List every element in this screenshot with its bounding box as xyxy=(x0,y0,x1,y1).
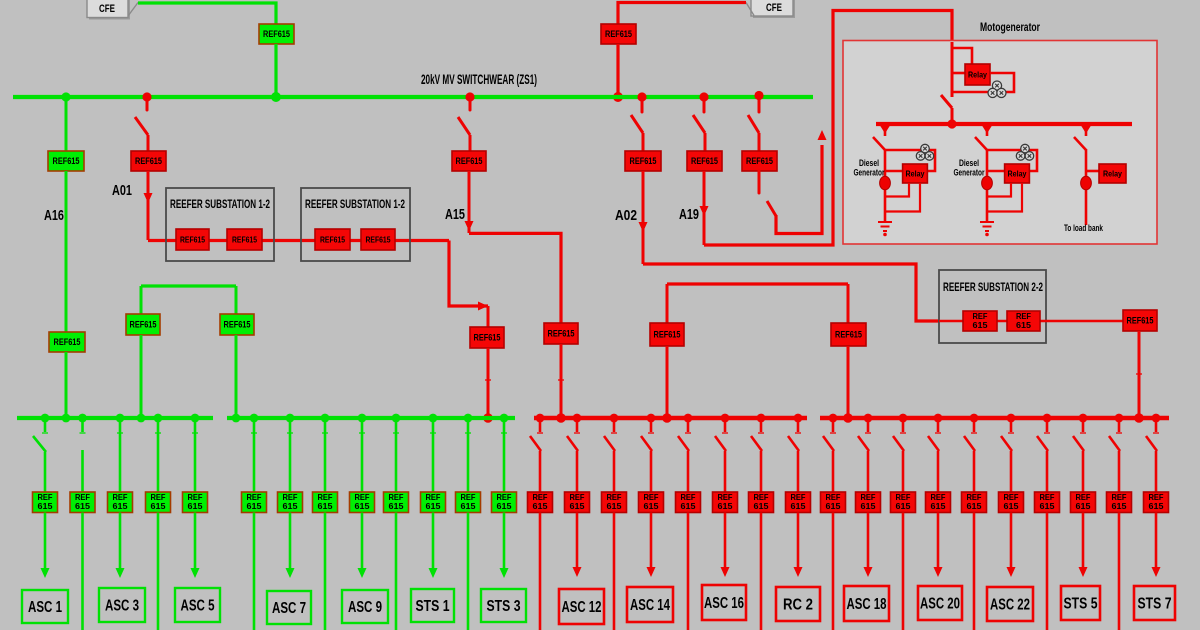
svg-text:615: 615 xyxy=(973,321,989,330)
wire A15 down xyxy=(468,171,471,233)
svg-text:REF615: REF615 xyxy=(474,333,501,343)
wire branch main vertical 3 load bank xyxy=(1085,149,1088,225)
relay REF615 feeder A01 xyxy=(131,151,166,171)
wire feeder stub xyxy=(797,418,800,432)
svg-text:STS 5: STS 5 xyxy=(1064,596,1098,613)
breaker feeder (open blade) xyxy=(823,436,834,451)
relay REF615 A15 drop to red bus xyxy=(544,323,578,344)
breaker feeder (open blade) xyxy=(788,436,799,451)
load box ASC 22 xyxy=(987,587,1033,621)
svg-text:REF: REF xyxy=(1004,493,1019,502)
tick feeder xyxy=(430,432,436,434)
wire A19 to motogenerator xyxy=(704,11,952,246)
svg-text:REF615: REF615 xyxy=(263,29,290,39)
node feeder tap green ASC 7 xyxy=(286,414,295,423)
wire green sub-ring left to bus xyxy=(140,335,143,416)
tick feeder xyxy=(685,432,691,434)
wire feeder to relay xyxy=(1155,451,1158,493)
wire feeder to ASC 18 xyxy=(867,513,870,568)
svg-text:REF: REF xyxy=(188,493,203,502)
wire red sub-ring left drop xyxy=(666,284,669,324)
relay REF615 feeder spare xyxy=(602,492,627,513)
wire feeder stub xyxy=(539,418,542,432)
breaker feeder (open blade) xyxy=(893,436,904,451)
svg-text:REF615: REF615 xyxy=(691,156,718,166)
svg-text:615: 615 xyxy=(931,502,947,511)
wire branch fan loop 2 xyxy=(987,150,1037,171)
wire feeder to edge xyxy=(832,513,835,630)
relay REF615 feeder A19 xyxy=(687,151,722,171)
svg-text:CFE: CFE xyxy=(99,3,115,15)
wire A02 to relay xyxy=(642,133,645,152)
load box STS 5 xyxy=(1061,586,1100,620)
wire through reefer 2-2 xyxy=(939,320,1123,323)
tick feeder xyxy=(80,432,86,434)
wire tie to relay xyxy=(758,133,761,152)
svg-text:REF615: REF615 xyxy=(1127,316,1154,326)
wire branch to relay 3 load bank xyxy=(1086,170,1099,173)
wire relay loop right xyxy=(952,73,1014,92)
svg-text:REF615: REF615 xyxy=(54,337,81,347)
wire branch main vertical 2 xyxy=(986,149,989,222)
tick feeder xyxy=(1153,432,1159,434)
label Diesel Generator 1 xyxy=(854,158,885,179)
tick feeder xyxy=(574,432,580,434)
svg-text:ASC 9: ASC 9 xyxy=(348,599,382,616)
wire feeder to edge xyxy=(1046,513,1049,630)
wire feeder to relay xyxy=(1118,451,1121,493)
wire feeder to ASC 7 xyxy=(289,513,292,569)
svg-text:REF: REF xyxy=(1076,493,1091,502)
ground branch 2 xyxy=(980,222,994,236)
svg-text:REF615: REF615 xyxy=(456,156,483,166)
tick feeder xyxy=(322,432,328,434)
wire A02 stub from bus xyxy=(641,97,644,112)
wire relay leg A 2 xyxy=(987,183,1011,197)
svg-text:REEFER SUBSTATION 1-2: REEFER SUBSTATION 1-2 xyxy=(170,199,270,211)
svg-text:REF615: REF615 xyxy=(654,330,681,340)
wire feeder upper xyxy=(395,418,398,493)
relay REF615 feeder STS 5 xyxy=(1071,492,1096,513)
tick reefer 2-2 output xyxy=(1136,373,1142,375)
wire reefer feed to distribution bus xyxy=(487,348,490,416)
arrow feeder STS 3 xyxy=(500,568,509,578)
node feeder tap green STS 3 xyxy=(500,414,509,423)
wire tie return up xyxy=(776,145,822,234)
relay REF615 feeder RC 2 xyxy=(786,492,811,513)
svg-text:REEFER SUBSTATION 1-2: REEFER SUBSTATION 1-2 xyxy=(305,199,405,211)
relay REF615 feeder A15 xyxy=(452,151,486,171)
svg-text:REF: REF xyxy=(644,493,659,502)
node CFE-left drop junction xyxy=(271,92,281,102)
wire feeder stub xyxy=(650,418,653,432)
svg-text:REF: REF xyxy=(1040,493,1055,502)
wire feeder stub xyxy=(81,418,84,432)
wire sub-ring left to red bus xyxy=(666,346,669,416)
node A15 drop on red bus xyxy=(556,413,566,423)
arrow A02 flow direction xyxy=(639,222,648,232)
breaker feeder (open blade) xyxy=(751,436,762,451)
node feeder tap red ASC 18 xyxy=(864,414,873,423)
svg-text:ASC 16: ASC 16 xyxy=(704,595,744,612)
tick feeder xyxy=(758,432,764,434)
node A01 tap on main bus xyxy=(142,92,151,101)
svg-text:615: 615 xyxy=(247,502,263,511)
wire feeder to edge xyxy=(1118,513,1121,630)
node feeder tap red spare r13 xyxy=(970,414,979,423)
breaker feeder (open blade) xyxy=(928,436,939,451)
wire feeder to relay xyxy=(1082,451,1085,493)
wire branch fan loop 1 xyxy=(885,150,935,171)
wire feeder to edge xyxy=(539,513,542,630)
load box STS 1 xyxy=(411,589,454,622)
wire feeder upper xyxy=(361,418,364,493)
wire A19 down xyxy=(703,171,706,245)
relay REF615 feeder ASC 16 xyxy=(713,492,738,513)
wire branch main vertical 1 xyxy=(884,149,887,222)
node feeder tap red RC 2 xyxy=(794,414,803,423)
svg-text:Motogenerator: Motogenerator xyxy=(980,22,1040,34)
node feeder tap red spare r7 xyxy=(757,414,766,423)
svg-text:REF615: REF615 xyxy=(130,320,157,330)
node feeder tap red spare r9 xyxy=(829,414,838,423)
breaker A15 (open blade) xyxy=(458,117,470,135)
wire feeder to STS 7 xyxy=(1155,513,1158,568)
fan motor trio branch 1 xyxy=(916,144,933,160)
wire feeder to edge xyxy=(760,513,763,630)
relay REF615 feeder spare xyxy=(313,492,338,513)
load box ASC 3 xyxy=(99,588,145,622)
svg-text:615: 615 xyxy=(75,502,91,511)
wire A19 to relay xyxy=(704,133,707,152)
relay REF615 green sub-ring left xyxy=(126,314,160,335)
svg-text:615: 615 xyxy=(681,502,697,511)
svg-text:ASC 3: ASC 3 xyxy=(105,598,139,615)
relay REF615 feeder ASC 22 xyxy=(999,492,1024,513)
wire REF615 to main bus xyxy=(274,44,277,95)
wire feeder to relay xyxy=(613,451,616,493)
tick reefer feed xyxy=(485,379,491,381)
arrow tap diesel generator branch 1 xyxy=(880,126,890,134)
svg-text:ASC 1: ASC 1 xyxy=(28,599,62,616)
tick feeder xyxy=(611,432,617,434)
wire feeder to STS 1 xyxy=(432,513,435,569)
svg-text:615: 615 xyxy=(570,502,586,511)
fan motor trio branch 2 xyxy=(1016,144,1033,160)
svg-text:REF: REF xyxy=(1016,312,1031,321)
node feeder tap green spare 4 xyxy=(154,414,163,423)
svg-text:615: 615 xyxy=(826,502,842,511)
wire feeder upper xyxy=(432,418,435,493)
wire feeder to relay xyxy=(937,451,940,493)
node feeder tap red spare r5 xyxy=(684,414,693,423)
svg-text:STS 3: STS 3 xyxy=(487,598,521,615)
svg-text:REF: REF xyxy=(355,493,370,502)
enclosure REEFER SUBSTATION 1-2 (first) xyxy=(166,188,274,261)
node A02 tap on main bus xyxy=(637,92,646,101)
relay REF615 reefer 1-2 second B xyxy=(361,229,395,250)
svg-text:615: 615 xyxy=(896,502,912,511)
arrow feeder STS 7 xyxy=(1152,567,1161,577)
node feeder tap green ASC 3 xyxy=(116,414,125,423)
svg-text:615: 615 xyxy=(1040,502,1056,511)
arrow feeder ASC 14 xyxy=(647,567,656,577)
svg-text:REF: REF xyxy=(718,493,733,502)
wire feeder to relay xyxy=(902,451,905,493)
arrow tie pointing to bus xyxy=(818,130,827,140)
arrow feeder ASC 7 xyxy=(286,568,295,578)
relay REF615 feeder spare xyxy=(1107,492,1132,513)
relay REF615 feeder ASC 14 xyxy=(639,492,664,513)
svg-text:REF: REF xyxy=(973,312,988,321)
tick feeder xyxy=(287,432,293,434)
wire feeder upper xyxy=(119,418,122,493)
relay REF615 feeder ASC 12 xyxy=(565,492,590,513)
wire A15 over to red bus drop xyxy=(469,233,561,323)
svg-text:615: 615 xyxy=(188,502,204,511)
svg-text:REF: REF xyxy=(861,493,876,502)
breaker feeder (open blade) xyxy=(641,436,652,451)
wire feeder to edge xyxy=(157,513,160,630)
relay REF615 feeder ASC 5 xyxy=(183,492,208,513)
wire feeder upper xyxy=(194,418,197,493)
wire feeder to relay xyxy=(724,451,727,493)
relay Relay (motogenerator incomer) xyxy=(965,64,990,85)
svg-text:REF: REF xyxy=(1149,493,1164,502)
arrow feeder STS 5 xyxy=(1079,567,1088,577)
svg-text:CFE: CFE xyxy=(766,2,782,14)
breaker A19 (open blade) xyxy=(693,115,705,133)
bus red distribution section 2 xyxy=(820,416,1169,421)
wire feeder to edge xyxy=(902,513,905,630)
svg-text:Relay: Relay xyxy=(1008,169,1027,179)
svg-text:REF: REF xyxy=(967,493,982,502)
relay Relay branch 1 xyxy=(903,164,928,183)
tick feeder xyxy=(795,432,801,434)
tick feeder xyxy=(1116,432,1122,434)
relay REF615 feeder spare xyxy=(962,492,987,513)
node generator tie tap on main bus xyxy=(754,91,763,100)
breaker feeder (open blade) xyxy=(1146,436,1157,451)
breaker feeder (open blade) xyxy=(530,436,541,451)
relay REF615 on CFE-left incomer xyxy=(259,24,294,44)
wire feeder to RC 2 xyxy=(797,513,800,568)
wire feeder stub xyxy=(760,418,763,432)
wire reefer 2-2 output to red bus xyxy=(1138,331,1141,415)
tick feeder xyxy=(117,432,123,434)
wire feeder upper xyxy=(289,418,292,493)
wire relay leg B 1 xyxy=(885,183,920,212)
svg-text:REF: REF xyxy=(826,493,841,502)
svg-text:615: 615 xyxy=(754,502,770,511)
svg-text:615: 615 xyxy=(389,502,405,511)
wire feeder to ASC 3 xyxy=(119,513,122,569)
wire relay leg A 1 xyxy=(885,183,909,197)
wire A02 down xyxy=(642,171,645,264)
wire feeder stub xyxy=(1155,418,1158,432)
relay Relay branch 3 load bank xyxy=(1099,164,1126,183)
wire REF615 to main bus xyxy=(616,44,619,95)
wire feeder upper xyxy=(503,418,506,493)
wire feeder upper xyxy=(157,418,160,493)
arrow feeder STS 1 xyxy=(429,568,438,578)
breaker feeder ASC 1 (open blade) xyxy=(33,436,46,452)
wire feeder to ASC 20 xyxy=(937,513,940,568)
CFE utility source right (document tag) xyxy=(746,0,795,18)
svg-text:RC 2: RC 2 xyxy=(783,597,813,614)
svg-text:To load bank: To load bank xyxy=(1064,223,1103,234)
svg-text:A02: A02 xyxy=(615,207,637,224)
wire feeder stub xyxy=(832,418,835,432)
wire A16 upper section xyxy=(65,97,68,152)
relay REF615 on CFE-right incomer xyxy=(601,24,636,44)
arrow feeder ASC 16 xyxy=(721,567,730,577)
arrow A15 flow direction xyxy=(465,221,474,231)
relay REF615 feeder spare xyxy=(146,492,171,513)
load box STS 7 xyxy=(1134,586,1175,620)
wire feeder to STS 5 xyxy=(1082,513,1085,568)
node feeder tap green spare 2 xyxy=(78,414,87,423)
wire red sub-ring right drop xyxy=(847,284,850,324)
arrow feeder ASC 3 xyxy=(116,568,125,578)
svg-text:REF: REF xyxy=(247,493,262,502)
svg-text:REF: REF xyxy=(38,493,53,502)
load box ASC 5 xyxy=(175,588,220,622)
bus green distribution section 2 xyxy=(227,416,515,420)
generator machine 3 load bank xyxy=(1081,176,1092,190)
tick feeder xyxy=(155,432,161,434)
wire feeder to edge xyxy=(613,513,616,630)
load box STS 3 xyxy=(481,589,526,622)
wire feeder stub xyxy=(1010,418,1013,432)
node feeder tap red STS 7 xyxy=(1152,414,1161,423)
wire feeder to ASC 16 xyxy=(724,513,727,568)
tick feeder xyxy=(1080,432,1086,434)
node A19 tap on main bus xyxy=(699,92,708,101)
svg-text:STS 1: STS 1 xyxy=(416,598,450,615)
svg-text:615: 615 xyxy=(1112,502,1128,511)
arrow feeder ASC 20 xyxy=(934,567,943,577)
svg-text:615: 615 xyxy=(151,502,167,511)
breaker feeder (open blade) xyxy=(678,436,689,451)
relay REF615 feeder spare xyxy=(676,492,701,513)
wire from CFE right to REF615 xyxy=(618,3,746,25)
svg-text:REF615: REF615 xyxy=(224,320,251,330)
relay REF615 feeder spare xyxy=(1035,492,1060,513)
svg-text:REF615: REF615 xyxy=(366,235,391,245)
node feeder tap red ASC 14 xyxy=(647,414,656,423)
wire branch relay stub 2 xyxy=(987,170,1005,173)
relay REF615 reefer 2-2 B xyxy=(1007,311,1040,331)
svg-text:REF: REF xyxy=(318,493,333,502)
wire feeder stub xyxy=(1082,418,1085,432)
svg-text:A16: A16 xyxy=(44,207,64,224)
wire green sub-ring right to bus xyxy=(235,335,238,416)
relay REF615 reefer 1-2 second A xyxy=(315,229,350,250)
svg-text:615: 615 xyxy=(1004,502,1020,511)
relay REF615 sub-ring right xyxy=(831,323,866,346)
svg-text:ASC 5: ASC 5 xyxy=(181,598,215,615)
wire feeder to ASC 5 xyxy=(194,513,197,569)
node A16 on green bus xyxy=(62,414,71,423)
arrow A19 flow direction xyxy=(700,206,709,216)
node feeder tap red spare r15 xyxy=(1043,414,1052,423)
arrow tap diesel generator branch 2 xyxy=(982,126,992,134)
relay REF615 reefer feed to green bus xyxy=(470,327,504,348)
relay REF615 feeder spare xyxy=(749,492,774,513)
wire feeder stub xyxy=(613,418,616,432)
enclosure REEFER SUBSTATION 1-2 (second) xyxy=(301,188,410,261)
node feeder tap red spare r3 xyxy=(610,414,619,423)
svg-text:615: 615 xyxy=(607,502,623,511)
svg-text:REF: REF xyxy=(607,493,622,502)
arrow A01 flow direction xyxy=(144,193,153,203)
wire feeder to edge xyxy=(973,513,976,630)
load box ASC 1 xyxy=(22,590,68,623)
tick feeder xyxy=(537,432,543,434)
tick feeder xyxy=(359,432,365,434)
svg-text:615: 615 xyxy=(644,502,660,511)
svg-text:ASC 20: ASC 20 xyxy=(920,596,960,613)
load box ASC 7 xyxy=(267,591,311,624)
wire A15 stub from bus xyxy=(469,97,472,110)
svg-text:615: 615 xyxy=(318,502,334,511)
relay REF615 feeder ASC 3 xyxy=(108,492,133,513)
wire tie stub from bus xyxy=(758,97,761,112)
wire feeder to relay xyxy=(44,452,47,493)
relay REF615 feeder spare xyxy=(456,492,481,513)
svg-text:Relay: Relay xyxy=(1103,169,1122,179)
arrow feeder RC 2 xyxy=(794,567,803,577)
svg-text:615: 615 xyxy=(38,502,54,511)
node A15 tap on main bus xyxy=(465,92,474,101)
wire relay loop left xyxy=(952,72,965,75)
wire feeder below open gap xyxy=(81,450,84,493)
node feeder tap red ASC 12 xyxy=(573,414,582,423)
wire A15 to relay xyxy=(469,135,472,152)
load box ASC 20 xyxy=(918,586,962,620)
wire from CFE left to REF615 xyxy=(138,3,276,24)
bus red distribution section 1 xyxy=(534,416,807,421)
svg-text:ASC 12: ASC 12 xyxy=(562,599,602,616)
load box ASC 18 xyxy=(844,586,889,621)
relay REF615 green sub-ring right xyxy=(220,314,254,335)
relay REF615 feeder ASC 7 xyxy=(278,492,303,513)
relay REF615 feeder spare xyxy=(821,492,846,513)
wire feeder to relay xyxy=(539,451,542,493)
svg-text:REF615: REF615 xyxy=(180,235,205,245)
wire A15 drop to red distribution bus xyxy=(560,344,563,416)
breaker feeder (open blade) xyxy=(964,436,975,451)
breaker tie lower (open blade) xyxy=(767,201,776,216)
fan motor trio (incomer) xyxy=(988,81,1006,98)
svg-text:Generator: Generator xyxy=(954,168,985,179)
relay REF615 feeder STS 7 xyxy=(1144,492,1169,513)
node feeder tap green ASC 1 xyxy=(41,414,50,423)
arrow feeder ASC 12 xyxy=(573,567,582,577)
ground branch 1 xyxy=(878,222,892,236)
wire A01 stub from bus xyxy=(146,97,149,110)
svg-text:REF615: REF615 xyxy=(320,235,345,245)
svg-text:ASC 14: ASC 14 xyxy=(630,597,670,614)
node A16 tap on main bus xyxy=(61,92,70,101)
tick feeder xyxy=(501,432,507,434)
wire branch relay stub 1 xyxy=(885,170,903,173)
relay REF615 feeder A16 upper xyxy=(48,151,84,171)
svg-text:REF: REF xyxy=(113,493,128,502)
svg-text:Generator: Generator xyxy=(854,168,885,179)
svg-text:A15: A15 xyxy=(445,206,465,223)
